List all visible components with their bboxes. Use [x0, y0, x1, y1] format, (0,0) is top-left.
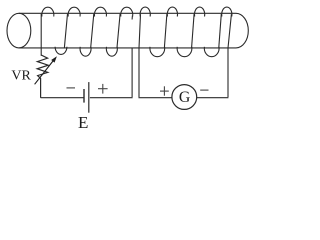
- svg-text:VR: VR: [11, 68, 31, 83]
- svg-text:E: E: [78, 113, 88, 132]
- svg-text:G: G: [179, 89, 190, 106]
